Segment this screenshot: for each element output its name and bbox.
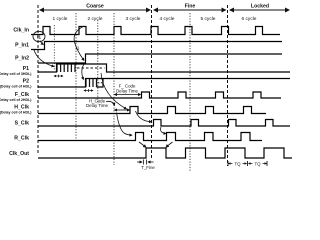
P2 cell width mark <box>84 89 93 92</box>
arrow from Clk_In pulse2 to P_In2 rising edge <box>74 26 84 61</box>
signal sublabel (Delay cell of 3HDL) <box>0 72 32 76</box>
cycle label 1 cycle <box>53 16 68 22</box>
signal label R_Clk <box>14 136 29 142</box>
svg-text:T_Fine: T_Fine <box>141 165 155 170</box>
H_Code Delay Time label <box>86 99 109 109</box>
T_Fine measurement marks <box>137 160 154 165</box>
T_Fine label <box>141 165 155 170</box>
signal sublabel (Delay cell of 2HDL) <box>0 98 32 102</box>
svg-text:(Delay cell of HDL): (Delay cell of HDL) <box>0 85 32 89</box>
signal label P_In2 <box>15 56 29 62</box>
section boundary dashed line x=38 <box>37 5 39 155</box>
cycle grid dotted line x=190 <box>189 13 191 172</box>
waveform S_Clk <box>38 120 290 127</box>
P2 uncertainty dashed midline <box>98 82 104 84</box>
svg-text:6 cycle: 6 cycle <box>242 16 257 22</box>
t1 circled label near Clk_In pulse1 <box>33 31 45 41</box>
P1 delay-cell hatched block <box>57 64 75 72</box>
cycle label 6 cycle <box>242 16 257 22</box>
signal label Clk_In <box>13 28 29 34</box>
cycle grid dotted line x=76 <box>75 13 77 140</box>
svg-text:R_Clk: R_Clk <box>14 136 29 142</box>
svg-text:1 cycle: 1 cycle <box>53 16 68 22</box>
arrow from R_Clk pulse1 to Clk_Out rise <box>139 142 146 147</box>
cycle label 5 cycle <box>201 16 216 22</box>
svg-text:5 cycle: 5 cycle <box>201 16 216 22</box>
svg-text:Clk_Out: Clk_Out <box>9 151 29 157</box>
svg-text:TQ: TQ <box>234 161 241 166</box>
svg-text:P_In2: P_In2 <box>15 56 29 62</box>
P1 uncertainty dashed midline <box>77 67 105 69</box>
arrow from t1 circle to P_In1 rising edge <box>40 41 44 45</box>
svg-text:(Delay cell of 3HDL): (Delay cell of 3HDL) <box>0 72 32 76</box>
waveform F_Clk <box>38 92 281 98</box>
signal label Clk_Out <box>9 151 29 157</box>
TQ arrows and labels <box>229 161 267 166</box>
waveform P1 <box>38 64 290 72</box>
signal label S_Clk <box>15 121 30 127</box>
cycle label 3 cycle <box>126 16 141 22</box>
cycle label 2 cycle <box>88 16 103 22</box>
svg-text:Delay Time: Delay Time <box>116 89 139 94</box>
waveform P2 <box>38 79 290 88</box>
svg-text:Locked: Locked <box>251 4 269 10</box>
svg-text:Clk_In: Clk_In <box>13 28 29 34</box>
waveform Clk_Out <box>38 148 292 158</box>
header arrow Fine <box>154 4 226 11</box>
waveform H_Clk <box>38 107 266 114</box>
signal label P_In1 <box>15 43 29 49</box>
svg-text:Delay Time: Delay Time <box>86 103 109 108</box>
cycle grid dotted line x=98 <box>97 20 99 104</box>
svg-text:(Delay cell of HDL): (Delay cell of HDL) <box>0 111 32 115</box>
svg-text:t1: t1 <box>37 35 41 40</box>
arrow from P_In1 to P1 block <box>34 50 54 67</box>
P1 cell width mark <box>54 75 63 78</box>
svg-text:Fine: Fine <box>185 4 196 10</box>
H_Code delay double arrow <box>115 109 130 111</box>
waveform R_Clk <box>38 133 262 141</box>
svg-text:4 cycle: 4 cycle <box>160 16 175 22</box>
arrow from H_Clk pulse to S_Clk pulse <box>136 111 152 122</box>
arrow from R_Clk pulse2 to Clk_Out fall <box>166 142 173 147</box>
waveform Clk_In <box>31 27 280 35</box>
waveform P_In2 <box>38 54 282 63</box>
svg-text:Coarse: Coarse <box>86 4 104 10</box>
signal sublabel (Delay cell of HDL) <box>0 111 32 115</box>
cycle grid dotted line x=114 <box>113 13 115 165</box>
svg-text:S_Clk: S_Clk <box>15 121 30 127</box>
svg-text:(Delay cell of 2HDL): (Delay cell of 2HDL) <box>0 98 32 102</box>
section boundary dashed line x=228 <box>227 5 229 166</box>
P2 delay-cell hatched block <box>86 79 97 88</box>
section boundary dashed line x=152 <box>151 5 153 160</box>
svg-text:P_In1: P_In1 <box>15 43 29 49</box>
signal label P2 <box>23 79 29 85</box>
signal label P1 <box>23 66 29 72</box>
arrow from P_In2 to P2 block <box>82 63 85 80</box>
arrow from S_Clk pulse to R_Clk pulse2 <box>161 127 166 134</box>
signal label H_Clk <box>14 105 29 111</box>
header arrow Coarse <box>40 4 150 11</box>
svg-text:TQ: TQ <box>254 161 261 166</box>
arrow into R_Clk pulse1 <box>117 113 133 136</box>
cycle grid dotted line x=54 <box>53 25 55 70</box>
signal label F_Clk <box>15 92 29 98</box>
arrow from P1 to H_Clk first pulse <box>101 73 127 109</box>
t1 label near P_In2 <box>76 46 80 51</box>
F_Code Delay Time label <box>116 84 139 94</box>
svg-text:3 cycle: 3 cycle <box>126 16 141 22</box>
TQ measurement bars <box>228 161 267 166</box>
F_Code delay double arrow <box>115 94 141 96</box>
signal sublabel (Delay cell of HDL) <box>0 85 32 89</box>
svg-text:2 cycle: 2 cycle <box>88 16 103 22</box>
waveform P_In1 <box>31 42 282 50</box>
header arrow Locked <box>230 4 289 11</box>
pointer from H_Code label to delay arrow <box>106 101 115 105</box>
cycle label 4 cycle <box>160 16 175 22</box>
